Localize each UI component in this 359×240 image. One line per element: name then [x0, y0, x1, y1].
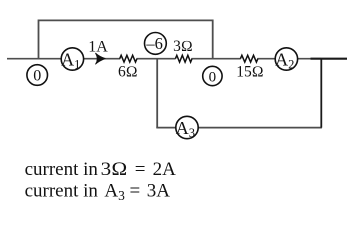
svg-text:1A: 1A: [88, 38, 108, 55]
wire: bottom branch horizontal left segment to A3: [156, 127, 175, 129]
wire: main wire 15-ohm to A2: [257, 58, 275, 60]
svg-text:0: 0: [33, 68, 41, 85]
wire: main wire A2 to junction D: [298, 58, 321, 60]
resistor 6ohm zigzag: [120, 55, 137, 62]
node A potential circle 0: [27, 65, 48, 86]
svg-text:current inA3=3A: current inA3=3A: [25, 180, 171, 203]
svg-text:0: 0: [209, 69, 217, 85]
node B potential circle -6: [145, 33, 167, 55]
wire: bottom branch vertical up to junction D: [320, 59, 322, 128]
svg-text:6Ω: 6Ω: [118, 64, 138, 81]
wire: main wire 3-ohm to 15-ohm resistor (through node C): [191, 58, 240, 60]
ammeter A3: [176, 116, 198, 138]
ammeter A1: [61, 48, 83, 70]
wire: top bypass loop from node A to node C: [39, 20, 213, 58]
resistor 3ohm zigzag: [175, 55, 192, 62]
current arrow 1A direction on main wire: [96, 53, 106, 64]
wire: main wire A1 to 6-ohm resistor: [84, 58, 120, 60]
wire: bottom branch horizontal right segment from A3 to junction D: [199, 127, 322, 129]
wire: right lead beyond junction D: [311, 58, 348, 60]
ammeter A2: [275, 48, 297, 70]
svg-text:current in3Ω=2A: current in3Ω=2A: [25, 159, 177, 180]
svg-text:15Ω: 15Ω: [236, 64, 263, 81]
resistor 15ohm zigzag: [240, 55, 257, 62]
svg-text:3Ω: 3Ω: [173, 38, 193, 55]
svg-text:–6: –6: [145, 34, 163, 53]
wire: left lead of main horizontal wire: [7, 58, 61, 60]
wire: bottom branch vertical from node B down: [156, 59, 158, 128]
node C potential circle 0: [203, 66, 222, 85]
wire: main wire 6-ohm to 3-ohm resistor (through node B): [137, 58, 176, 60]
